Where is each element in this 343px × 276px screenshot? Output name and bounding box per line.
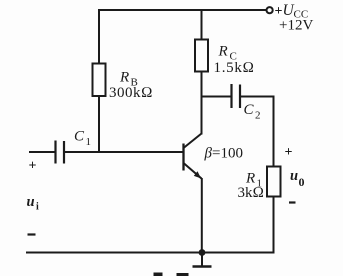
wire: bottom ground rail (26, 252, 274, 254)
output polarity - (289, 201, 296, 203)
wire: base wire (64, 151, 184, 153)
svg-text:R: R (218, 44, 228, 60)
svg-text:1: 1 (86, 136, 92, 148)
wire: RB bottom lead (98, 96, 100, 153)
input polarity - (28, 233, 36, 235)
svg-text:+: + (29, 159, 37, 174)
svg-text:β=100: β=100 (204, 146, 243, 162)
label C2 (244, 102, 261, 122)
transistor Q1 collector diagonal (184, 134, 202, 149)
terminal +Ucc (open circle) (267, 7, 273, 13)
wire: C2 left lead (202, 96, 232, 98)
label ui (27, 194, 40, 213)
ground symbol stub (201, 253, 203, 267)
resistor R1 body (267, 167, 281, 197)
svg-text:u: u (290, 168, 298, 184)
svg-text:u: u (27, 194, 35, 210)
svg-text:+: + (285, 145, 293, 160)
wire: RC top lead (201, 10, 203, 40)
svg-text:2: 2 (255, 110, 261, 122)
svg-text:300kΩ: 300kΩ (109, 85, 153, 101)
svg-text:i: i (36, 202, 39, 213)
capacitor C1 plates (56, 141, 65, 164)
svg-text:+12V: +12V (279, 18, 313, 34)
svg-text:C: C (74, 129, 85, 145)
label +Ucc (275, 2, 309, 21)
wire: input top-left lead (29, 151, 56, 153)
svg-text:1.5kΩ: 1.5kΩ (214, 60, 255, 76)
svg-text:C: C (244, 102, 255, 118)
label RB (119, 70, 138, 89)
wire: collector vertical (201, 71, 203, 135)
label RC (218, 44, 237, 63)
svg-text:3kΩ: 3kΩ (238, 185, 265, 201)
wire: top Vcc rail (99, 9, 266, 11)
wire: R1 bottom lead (273, 197, 275, 254)
svg-text:0: 0 (299, 175, 305, 189)
wire: C2 right lead to right rail (240, 96, 274, 98)
transistor Q1 emitter arrowhead (194, 171, 201, 178)
transistor Q1 emitter diagonal (184, 163, 202, 179)
caption fragment (cut off at bottom edge) (154, 273, 163, 276)
resistor RB body (93, 64, 106, 97)
wire: right rail upper (273, 96, 275, 167)
resistor RC body (195, 40, 208, 72)
transistor Q1 base bar (182, 144, 184, 171)
label C1 (74, 129, 91, 149)
ground symbol bar (193, 265, 212, 267)
label R1 (245, 171, 262, 190)
svg-text:R: R (119, 70, 129, 86)
wire: RB top lead (98, 9, 100, 64)
capacitor C2 plates (232, 84, 241, 108)
wire: emitter vertical (201, 178, 203, 253)
label uo (290, 168, 305, 189)
junction dot: emitter/ground node (199, 249, 206, 256)
